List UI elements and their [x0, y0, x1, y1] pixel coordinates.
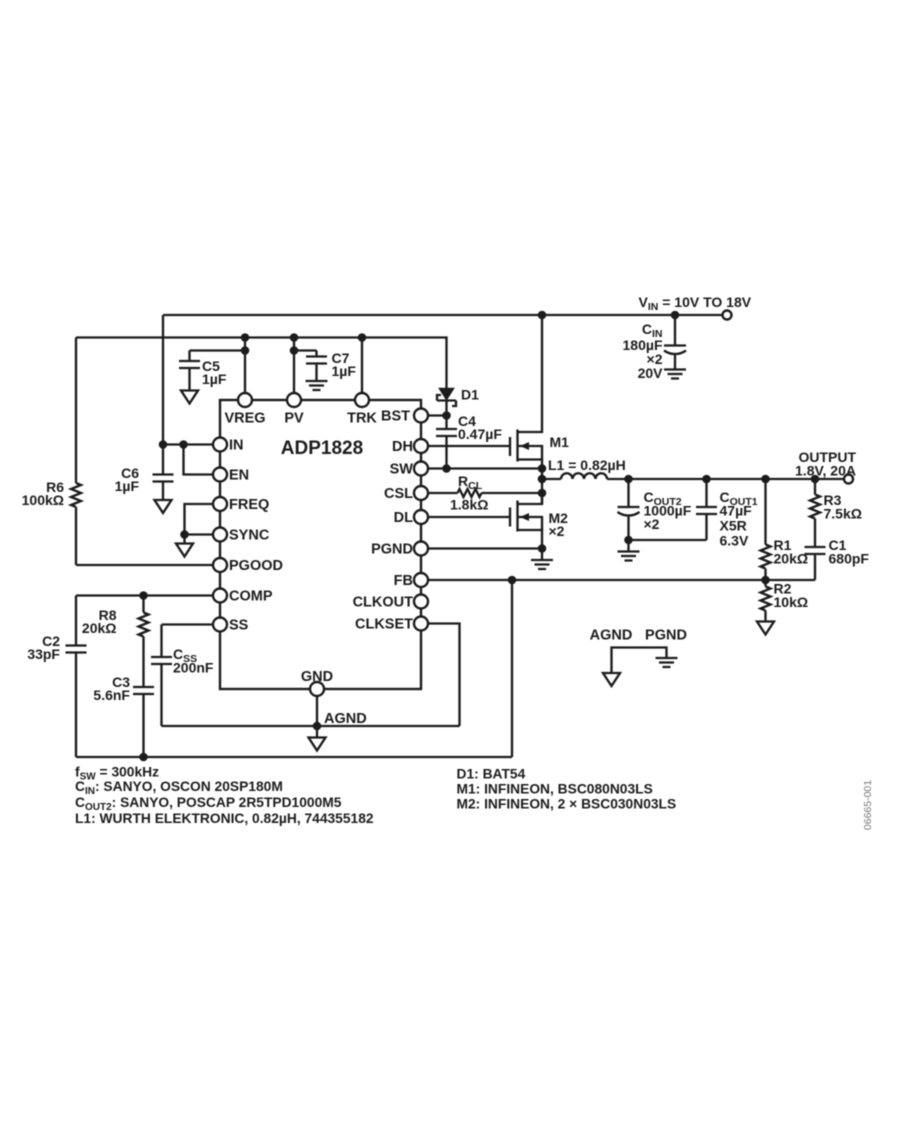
- svg-text:AGND: AGND: [590, 628, 633, 644]
- svg-text:DL: DL: [394, 510, 413, 526]
- svg-text:FB: FB: [394, 573, 413, 589]
- svg-text:L1 = 0.82µH: L1 = 0.82µH: [548, 457, 626, 473]
- svg-text:ADP1828: ADP1828: [281, 438, 363, 459]
- svg-text:L1: WURTH ELEKTRONIC, 0.82µH,: L1: WURTH ELEKTRONIC, 0.82µH, 744355182: [75, 811, 374, 826]
- svg-text:COMP: COMP: [229, 589, 273, 605]
- svg-text:10kΩ: 10kΩ: [774, 594, 809, 610]
- svg-text:D1: D1: [461, 387, 479, 403]
- svg-text:EN: EN: [229, 468, 249, 484]
- svg-text:M1: M1: [550, 434, 570, 450]
- svg-text:CLKOUT: CLKOUT: [353, 595, 414, 611]
- svg-text:06665-001: 06665-001: [862, 780, 874, 830]
- svg-text:100kΩ: 100kΩ: [22, 492, 64, 508]
- svg-text:TRK: TRK: [347, 411, 377, 427]
- svg-text:M1: INFINEON, BSC080N03LS: M1: INFINEON, BSC080N03LS: [457, 782, 653, 797]
- svg-text:1µF: 1µF: [115, 478, 140, 494]
- svg-text:D1: BAT54: D1: BAT54: [457, 767, 526, 782]
- svg-text:AGND: AGND: [324, 711, 367, 727]
- svg-text:CSL: CSL: [384, 486, 413, 502]
- svg-text:1µF: 1µF: [202, 371, 227, 387]
- svg-text:M2: INFINEON, 2 × BSC030N03LS: M2: INFINEON, 2 × BSC030N03LS: [457, 797, 677, 812]
- svg-text:VREG: VREG: [224, 411, 265, 427]
- svg-text:PV: PV: [284, 411, 304, 427]
- svg-text:200nF: 200nF: [173, 660, 214, 676]
- svg-text:PGND: PGND: [371, 542, 413, 558]
- svg-text:×2: ×2: [549, 523, 565, 539]
- svg-text:FREQ: FREQ: [229, 497, 269, 513]
- svg-text:SYNC: SYNC: [229, 528, 270, 544]
- svg-text:1µF: 1µF: [332, 363, 357, 379]
- svg-text:7.5kΩ: 7.5kΩ: [824, 506, 862, 522]
- svg-text:6.3V: 6.3V: [720, 533, 749, 549]
- svg-text:PGOOD: PGOOD: [229, 558, 283, 574]
- svg-text:20kΩ: 20kΩ: [82, 620, 117, 636]
- svg-text:20V: 20V: [638, 365, 664, 381]
- svg-text:5.6nF: 5.6nF: [93, 687, 130, 703]
- svg-text:×2: ×2: [644, 516, 660, 532]
- svg-text:CLKSET: CLKSET: [355, 617, 413, 633]
- svg-text:SS: SS: [229, 618, 249, 634]
- svg-text:GND: GND: [301, 669, 333, 685]
- svg-text:1.8kΩ: 1.8kΩ: [450, 497, 488, 513]
- svg-text:IN: IN: [229, 438, 244, 454]
- svg-text:PGND: PGND: [645, 628, 687, 644]
- svg-text:47µF: 47µF: [720, 503, 753, 519]
- svg-text:20kΩ: 20kΩ: [774, 551, 809, 567]
- svg-text:0.47µF: 0.47µF: [458, 426, 502, 442]
- svg-text:680pF: 680pF: [829, 551, 870, 567]
- svg-text:33pF: 33pF: [27, 646, 60, 662]
- svg-text:1.8V, 20A: 1.8V, 20A: [795, 463, 856, 479]
- svg-text:SW: SW: [390, 462, 414, 478]
- svg-text:BST: BST: [381, 409, 410, 425]
- svg-text:DH: DH: [392, 439, 413, 455]
- svg-text:X5R: X5R: [720, 518, 747, 534]
